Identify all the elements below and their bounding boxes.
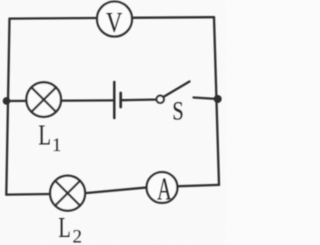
switch S lever [163, 82, 189, 98]
switch pivot circle [157, 96, 164, 103]
svg-text:S: S [172, 96, 184, 125]
battery short plate (negative) [119, 93, 122, 107]
wire: bottom side [6, 185, 219, 195]
svg-text:1: 1 [52, 135, 62, 156]
wire: top side (node top) [10, 17, 215, 18]
lamp L1 cross [32, 87, 57, 111]
junction node left [3, 97, 11, 105]
lamp L2 circle [50, 176, 85, 211]
wire: right vertical [214, 17, 219, 185]
lamp L1 circle [26, 82, 61, 117]
voltmeter V1 circle [97, 2, 132, 37]
battery long plate (positive) [113, 82, 116, 118]
wire: left vertical [6, 19, 9, 195]
paper background [0, 0, 225, 245]
svg-text:V: V [106, 7, 122, 39]
wire: middle branch, junction to battery [7, 99, 115, 102]
wire: switch fixed contact to right junction [194, 98, 218, 100]
junction node right [214, 95, 222, 103]
svg-text:2: 2 [73, 227, 83, 245]
svg-text:L: L [58, 213, 70, 244]
svg-text:L: L [38, 121, 51, 152]
lamp L2 cross [55, 181, 80, 206]
ammeter A1 circle [147, 172, 178, 203]
svg-text:A: A [157, 171, 172, 207]
wire: battery to switch pivot [122, 98, 160, 101]
